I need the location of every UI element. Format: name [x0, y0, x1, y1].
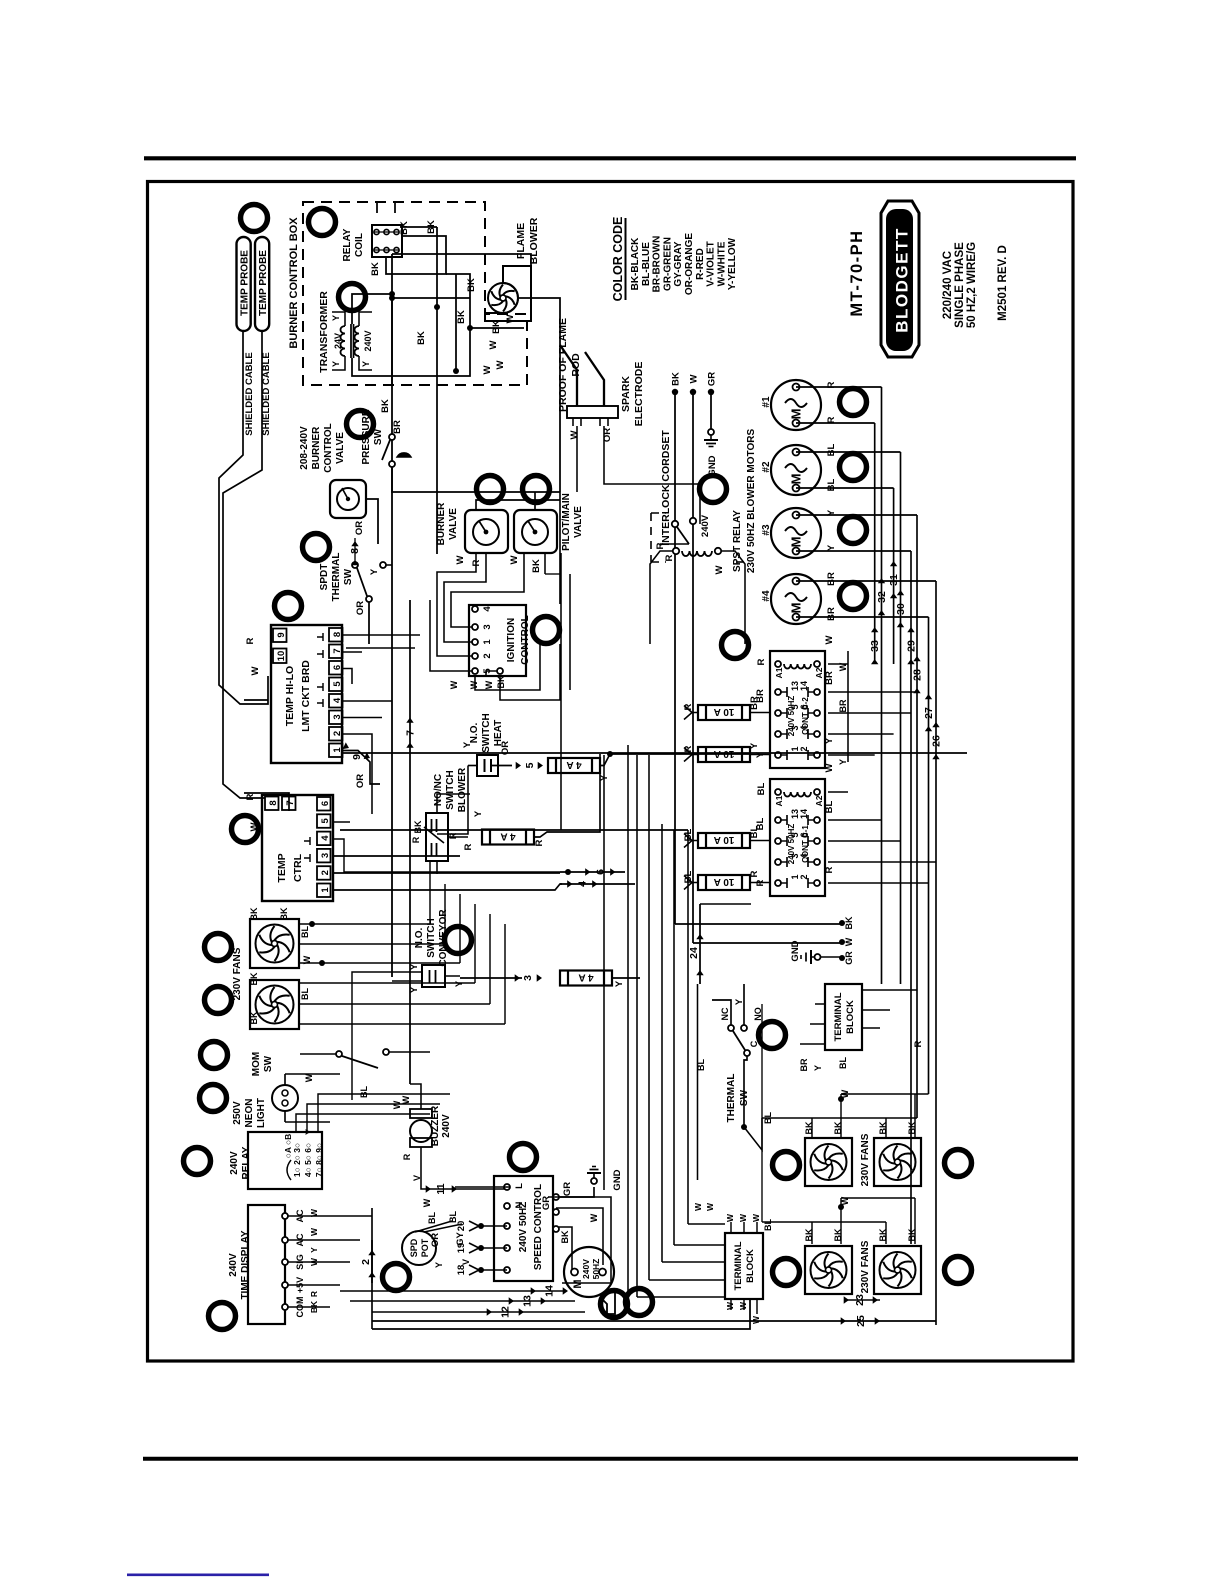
svg-text:TEMP HI-LO: TEMP HI-LO: [284, 666, 296, 726]
svg-text:CONT C-1: CONT C-1: [801, 825, 810, 863]
svg-text:Y: Y: [614, 980, 625, 987]
svg-text:27: 27: [923, 707, 935, 719]
svg-text:18: 18: [456, 1265, 467, 1276]
svg-text:OR: OR: [354, 521, 365, 535]
svg-text:#4: #4: [761, 590, 772, 602]
svg-text:M2501 REV. D: M2501 REV. D: [997, 245, 1009, 321]
svg-text:W: W: [569, 430, 580, 439]
svg-text:INTERLOCK CORDSET: INTERLOCK CORDSET: [660, 430, 672, 546]
svg-text:BL: BL: [359, 1086, 369, 1098]
svg-text:5: 5: [332, 681, 343, 687]
svg-text:BL: BL: [300, 988, 310, 1000]
svg-text:TERMINAL: TERMINAL: [833, 992, 844, 1041]
svg-text:W: W: [401, 1095, 411, 1104]
svg-text:OR-ORANGE: OR-ORANGE: [684, 233, 695, 296]
svg-text:4○ 5○ 6○: 4○ 5○ 6○: [303, 1143, 313, 1177]
svg-text:THERMAL: THERMAL: [726, 1074, 737, 1123]
svg-text:W: W: [705, 1202, 715, 1211]
svg-text:○A ○B: ○A ○B: [283, 1134, 293, 1159]
svg-text:PROOF OF FLAME: PROOF OF FLAME: [557, 318, 569, 412]
svg-text:BK: BK: [496, 675, 506, 688]
svg-text:4 A: 4 A: [566, 759, 581, 770]
svg-text:6: 6: [332, 665, 343, 670]
svg-text:Y-YELLOW: Y-YELLOW: [727, 237, 738, 290]
svg-text:BR: BR: [838, 699, 848, 712]
svg-text:10 A: 10 A: [714, 706, 735, 717]
svg-text:GY-GRAY: GY-GRAY: [673, 241, 684, 287]
svg-text:R: R: [664, 554, 675, 561]
svg-text:4 A: 4 A: [578, 972, 593, 983]
svg-text:29: 29: [906, 640, 918, 652]
svg-text:A1: A1: [774, 795, 784, 806]
svg-text:BLOWER: BLOWER: [528, 217, 540, 264]
svg-text:W: W: [725, 1301, 735, 1310]
svg-text:SWITCH: SWITCH: [481, 713, 492, 752]
svg-text:1○ 2○ 3○: 1○ 2○ 3○: [292, 1143, 302, 1177]
svg-text:4: 4: [482, 606, 493, 612]
svg-text:W: W: [689, 374, 700, 383]
svg-text:240V: 240V: [441, 1114, 452, 1138]
svg-text:240V: 240V: [363, 330, 373, 351]
svg-text:14: 14: [544, 1285, 556, 1297]
svg-text:W: W: [495, 360, 506, 369]
svg-text:W: W: [505, 314, 516, 323]
svg-text:BK: BK: [279, 907, 289, 920]
svg-text:OR: OR: [355, 774, 366, 788]
svg-text:TRANSFORMER: TRANSFORMER: [318, 291, 330, 373]
svg-text:Y: Y: [434, 1262, 444, 1268]
svg-text:8: 8: [268, 800, 279, 805]
svg-text:2: 2: [360, 1259, 372, 1265]
svg-text:5: 5: [524, 762, 536, 768]
svg-text:BK: BK: [380, 399, 391, 413]
svg-text:BR: BR: [824, 671, 835, 685]
svg-text:30: 30: [895, 603, 907, 615]
svg-text:GR: GR: [844, 951, 854, 965]
svg-text:TEMP PROBE: TEMP PROBE: [258, 250, 269, 316]
svg-text:V: V: [412, 1175, 422, 1181]
svg-text:240V: 240V: [228, 1253, 239, 1277]
svg-text:Y: Y: [409, 963, 420, 970]
svg-text:BK: BK: [456, 310, 467, 324]
svg-text:BK: BK: [491, 320, 502, 334]
svg-text:BL: BL: [826, 443, 837, 456]
svg-text:BK: BK: [531, 559, 542, 573]
svg-text:SW: SW: [263, 1055, 274, 1072]
svg-text:R: R: [402, 1153, 412, 1160]
svg-text:250V: 250V: [232, 1101, 243, 1125]
svg-text:NO/NC: NO/NC: [433, 774, 444, 806]
svg-text:R: R: [463, 843, 474, 850]
svg-text:24V: 24V: [333, 333, 343, 349]
svg-text:W: W: [824, 635, 835, 644]
svg-text:14: 14: [799, 809, 809, 819]
svg-text:BK: BK: [844, 916, 854, 929]
svg-text:TERMINAL: TERMINAL: [733, 1241, 744, 1290]
svg-text:M: M: [789, 603, 804, 614]
svg-text:W: W: [738, 1301, 748, 1310]
svg-text:28: 28: [912, 669, 924, 681]
svg-text:W: W: [449, 680, 459, 689]
svg-text:BR: BR: [749, 696, 760, 710]
svg-text:BR-BROWN: BR-BROWN: [652, 236, 663, 293]
svg-text:10 A: 10 A: [714, 876, 735, 887]
svg-text:OR: OR: [430, 1233, 441, 1247]
svg-text:BL: BL: [763, 1219, 773, 1231]
svg-text:4: 4: [332, 697, 343, 703]
svg-text:Y: Y: [462, 741, 473, 748]
svg-text:OR: OR: [355, 601, 366, 615]
svg-text:BR: BR: [392, 420, 403, 434]
svg-text:240V 50HZ: 240V 50HZ: [787, 696, 796, 737]
svg-text:BL: BL: [749, 825, 760, 838]
svg-text:4: 4: [320, 835, 331, 841]
svg-text:#2: #2: [761, 461, 772, 473]
svg-text:23: 23: [854, 1294, 866, 1306]
svg-text:IGNITION: IGNITION: [506, 618, 517, 662]
svg-text:GR-GREEN: GR-GREEN: [662, 237, 673, 291]
svg-text:7: 7: [285, 800, 296, 805]
svg-text:7: 7: [332, 648, 343, 653]
svg-text:230V FANS: 230V FANS: [232, 947, 243, 1000]
svg-text:Y: Y: [838, 759, 848, 765]
svg-text:R: R: [756, 658, 767, 665]
svg-text:R: R: [309, 1291, 319, 1297]
svg-text:Y: Y: [361, 361, 371, 367]
svg-text:Y: Y: [749, 742, 760, 749]
svg-text:1: 1: [482, 639, 493, 645]
svg-text:240V 50HZ: 240V 50HZ: [787, 824, 796, 865]
svg-text:TIME DISPLAY: TIME DISPLAY: [240, 1230, 251, 1299]
svg-text:BL: BL: [826, 478, 837, 491]
svg-text:A1: A1: [774, 667, 784, 678]
svg-text:NC: NC: [720, 1007, 730, 1020]
svg-text:BK: BK: [671, 372, 682, 386]
svg-text:240V: 240V: [229, 1151, 240, 1175]
svg-text:4 A: 4 A: [500, 831, 515, 842]
svg-text:240V: 240V: [700, 514, 711, 537]
svg-text:2: 2: [332, 731, 343, 736]
svg-text:BR: BR: [799, 1058, 809, 1071]
svg-text:W: W: [509, 555, 520, 564]
svg-text:BK: BK: [249, 972, 259, 985]
svg-text:BL: BL: [427, 1212, 437, 1224]
svg-text:N.O.: N.O.: [469, 723, 480, 744]
svg-text:M: M: [789, 537, 804, 548]
svg-text:8: 8: [332, 632, 343, 637]
svg-text:1: 1: [320, 887, 331, 893]
svg-text:SPDT: SPDT: [319, 564, 330, 591]
svg-text:BL: BL: [838, 1057, 848, 1069]
svg-text:W: W: [751, 1213, 761, 1222]
svg-text:VALVE: VALVE: [448, 508, 459, 540]
svg-text:Y: Y: [824, 737, 835, 744]
svg-text:CONTROL: CONTROL: [520, 615, 531, 664]
svg-text:BK: BK: [249, 1011, 259, 1024]
svg-text:N: N: [514, 1201, 525, 1208]
svg-text:5: 5: [320, 817, 331, 823]
svg-text:GR: GR: [707, 372, 718, 386]
svg-text:R: R: [245, 637, 256, 644]
svg-text:BK: BK: [416, 331, 427, 345]
svg-text:2: 2: [799, 874, 809, 879]
svg-text:BL: BL: [756, 782, 767, 795]
svg-text:Y: Y: [409, 986, 420, 993]
svg-text:14: 14: [799, 681, 809, 691]
svg-text:CONTROL: CONTROL: [323, 423, 334, 472]
svg-text:MOM: MOM: [251, 1052, 262, 1076]
svg-text:THERMAL: THERMAL: [331, 553, 342, 602]
svg-text:R: R: [824, 866, 835, 873]
svg-text:R-RED: R-RED: [695, 248, 706, 280]
svg-text:W: W: [469, 680, 479, 689]
svg-text:Y: Y: [331, 315, 341, 321]
svg-text:BK-BLACK: BK-BLACK: [630, 237, 641, 291]
svg-text:W: W: [844, 937, 854, 946]
svg-text:13: 13: [522, 1295, 534, 1307]
svg-text:50HZ: 50HZ: [591, 1259, 601, 1280]
svg-text:12: 12: [500, 1306, 512, 1318]
svg-text:POT: POT: [420, 1238, 430, 1257]
svg-text:SHIELDED CABLE: SHIELDED CABLE: [261, 352, 272, 435]
svg-text:N.O.: N.O.: [414, 928, 425, 949]
svg-text:ELECTRODE: ELECTRODE: [633, 362, 645, 427]
svg-text:VALVE: VALVE: [573, 506, 584, 538]
svg-text:SPARK: SPARK: [620, 376, 632, 412]
svg-text:BK: BK: [249, 907, 259, 920]
svg-text:W: W: [482, 365, 493, 374]
svg-text:MT-70-PH: MT-70-PH: [848, 229, 866, 316]
svg-text:R: R: [749, 870, 760, 877]
svg-text:BK: BK: [466, 278, 477, 292]
svg-text:R: R: [448, 832, 458, 839]
svg-text:V: V: [461, 1259, 471, 1265]
svg-text:220/240 VAC: 220/240 VAC: [942, 251, 954, 319]
svg-text:BURNER CONTROL BOX: BURNER CONTROL BOX: [288, 217, 300, 349]
svg-text:W: W: [714, 565, 725, 574]
svg-text:TEMP PROBE: TEMP PROBE: [240, 250, 251, 316]
svg-text:BL: BL: [824, 800, 835, 813]
svg-text:BK: BK: [413, 820, 423, 833]
svg-text:25: 25: [855, 1315, 867, 1327]
svg-text:W: W: [422, 1198, 432, 1207]
svg-text:3: 3: [332, 714, 343, 719]
svg-text:BURNER: BURNER: [436, 502, 447, 546]
svg-text:4: 4: [577, 881, 589, 887]
svg-text:10 A: 10 A: [714, 834, 735, 845]
svg-text:26: 26: [931, 735, 943, 747]
svg-text:24: 24: [688, 947, 700, 959]
svg-text:9: 9: [276, 632, 287, 637]
svg-text:9: 9: [351, 754, 363, 760]
svg-text:W: W: [693, 1202, 703, 1211]
svg-text:TEMP: TEMP: [276, 853, 288, 882]
svg-text:SHIELDED CABLE: SHIELDED CABLE: [244, 352, 255, 435]
svg-text:1: 1: [332, 747, 343, 753]
svg-text:BK: BK: [560, 1230, 570, 1243]
svg-text:50 HZ,2 WIRE/G: 50 HZ,2 WIRE/G: [966, 242, 978, 328]
svg-text:NEON: NEON: [244, 1099, 255, 1128]
svg-text:W: W: [484, 680, 494, 689]
svg-text:BK: BK: [399, 221, 410, 235]
svg-text:BL: BL: [300, 926, 310, 938]
svg-text:W: W: [455, 555, 466, 564]
svg-text:BR: BR: [826, 607, 837, 621]
svg-text:Y: Y: [473, 810, 484, 817]
svg-text:7○ 8○ 9○: 7○ 8○ 9○: [314, 1143, 324, 1177]
svg-text:RELAY: RELAY: [342, 228, 353, 261]
svg-text:230V 50HZ BLOWER MOTORS: 230V 50HZ BLOWER MOTORS: [746, 429, 757, 574]
svg-text:SINGLE PHASE: SINGLE PHASE: [954, 242, 966, 328]
svg-text:Y: Y: [369, 568, 380, 575]
svg-text:230V FANS: 230V FANS: [860, 1240, 871, 1293]
svg-text:VALVE: VALVE: [335, 432, 346, 464]
svg-text:GND: GND: [612, 1169, 623, 1190]
svg-text:R: R: [913, 1040, 924, 1047]
svg-text:3: 3: [482, 624, 493, 629]
svg-text:2: 2: [482, 653, 493, 658]
svg-text:SPD: SPD: [409, 1238, 419, 1257]
svg-text:Y: Y: [309, 1247, 319, 1253]
svg-text:BLODGETT: BLODGETT: [893, 227, 912, 333]
svg-text:GY: GY: [455, 1231, 466, 1245]
svg-text:W: W: [488, 340, 499, 349]
svg-text:M: M: [572, 1279, 584, 1288]
svg-text:Y: Y: [331, 361, 341, 367]
svg-text:LIGHT: LIGHT: [256, 1098, 267, 1128]
svg-text:230V FANS: 230V FANS: [860, 1133, 871, 1186]
svg-text:33: 33: [869, 640, 881, 652]
svg-text:GR: GR: [562, 1182, 573, 1196]
svg-text:M: M: [789, 474, 804, 485]
svg-text:R: R: [411, 836, 421, 843]
svg-text:BURNER: BURNER: [311, 426, 322, 470]
svg-text:RELAY: RELAY: [241, 1146, 252, 1179]
svg-text:11: 11: [435, 1183, 447, 1194]
svg-text:2: 2: [320, 870, 331, 875]
svg-text:#1: #1: [761, 396, 772, 408]
svg-text:#3: #3: [761, 524, 772, 536]
svg-text:W: W: [751, 1315, 761, 1324]
svg-text:M: M: [789, 409, 804, 420]
svg-text:W-WHITE: W-WHITE: [716, 241, 727, 286]
svg-text:COIL: COIL: [354, 233, 365, 257]
svg-text:7: 7: [405, 730, 417, 736]
svg-text:L: L: [514, 1183, 525, 1189]
svg-text:W: W: [250, 666, 261, 675]
svg-text:W: W: [824, 763, 835, 772]
svg-text:W: W: [738, 1213, 748, 1222]
svg-text:2: 2: [799, 746, 809, 751]
svg-text:R: R: [655, 542, 666, 549]
svg-text:CTRL: CTRL: [292, 853, 304, 882]
svg-text:3: 3: [320, 853, 331, 858]
svg-text:BL-BLUE: BL-BLUE: [641, 242, 652, 286]
svg-text:COLOR CODE: COLOR CODE: [611, 217, 625, 302]
svg-text:32: 32: [876, 591, 888, 603]
svg-text:LMT CKT BRD: LMT CKT BRD: [300, 660, 312, 732]
svg-text:R: R: [534, 839, 545, 846]
svg-text:W: W: [725, 1213, 735, 1222]
svg-text:CONT C-2: CONT C-2: [801, 697, 810, 735]
svg-text:6: 6: [320, 801, 331, 806]
svg-text:BK: BK: [370, 262, 381, 276]
svg-text:BLOCK: BLOCK: [845, 1000, 856, 1034]
svg-text:V-VIOLET: V-VIOLET: [706, 241, 717, 287]
svg-text:SWITCH: SWITCH: [445, 770, 456, 809]
svg-text:SW: SW: [343, 568, 354, 585]
svg-text:Y: Y: [826, 544, 837, 551]
svg-text:PILOT/MAIN: PILOT/MAIN: [561, 493, 572, 551]
svg-text:A2: A2: [814, 667, 824, 678]
svg-text:R: R: [245, 793, 256, 800]
svg-text:240V: 240V: [581, 1259, 591, 1279]
svg-text:BLOWER: BLOWER: [457, 767, 468, 812]
svg-text:A2: A2: [814, 795, 824, 806]
svg-text:31: 31: [888, 574, 900, 586]
svg-text:208-240V: 208-240V: [299, 426, 310, 470]
svg-text:GR: GR: [541, 1196, 552, 1210]
svg-text:W: W: [309, 1227, 319, 1236]
svg-text:W: W: [589, 1213, 599, 1222]
svg-text:3: 3: [522, 975, 534, 981]
svg-text:BR: BR: [826, 572, 837, 586]
svg-text:Y: Y: [813, 1065, 823, 1071]
svg-text:10: 10: [276, 651, 287, 662]
svg-text:BLOCK: BLOCK: [745, 1249, 756, 1283]
